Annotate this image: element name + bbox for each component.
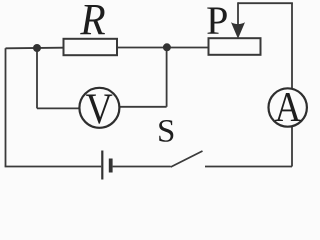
svg-text:P: P — [206, 0, 228, 43]
svg-text:S: S — [157, 114, 175, 150]
svg-text:V: V — [86, 85, 113, 133]
svg-text:R: R — [79, 0, 105, 44]
svg-text:A: A — [275, 84, 302, 131]
